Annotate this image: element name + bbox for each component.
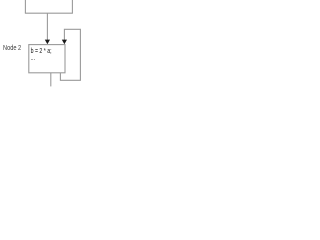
wire: incoming edge right vertical	[71, 0, 73, 13]
wire: descender into node	[46, 13, 48, 40]
svg-text:Node 2: Node 2	[3, 43, 21, 52]
wire: loop-back edge (bottom right around to top)	[60, 29, 80, 80]
wire: incoming edge left vertical	[24, 0, 26, 13]
wire: horizontal merge bus	[25, 12, 73, 14]
svg-text:...: ...	[31, 53, 36, 62]
node box Node 2	[29, 45, 65, 73]
arrowhead into node top (right, loop)	[62, 40, 67, 45]
wire: exit edge going down	[50, 73, 52, 87]
arrowhead into node top (left)	[45, 40, 50, 45]
